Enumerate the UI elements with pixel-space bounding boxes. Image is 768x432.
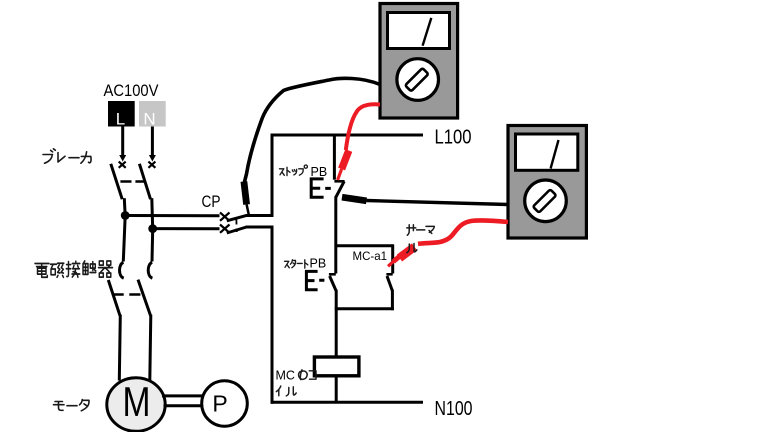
svg-text:L: L	[116, 110, 125, 129]
contactor pole1 upper wire	[123, 216, 125, 262]
terminal N	[139, 101, 166, 129]
multimeter 1 knob	[405, 68, 428, 91]
breaker pole2 blade	[139, 164, 150, 199]
multimeter 2 needle	[551, 140, 559, 169]
stop PB blade	[336, 181, 345, 197]
breaker pole2 terminal x	[148, 162, 155, 168]
N100 line	[271, 401, 424, 404]
contactor pole2 fixed contact hook	[148, 262, 152, 278]
wire junction B to CP pole2	[153, 227, 220, 230]
multimeter 1 body	[380, 4, 458, 119]
svg-text:AC100V: AC100V	[104, 81, 160, 100]
junction dot A	[121, 211, 130, 220]
CP pole1 blade	[227, 215, 247, 221]
multimeter 2 body	[508, 126, 586, 239]
wire start PB to coil	[335, 290, 338, 357]
label thermal (JP)	[407, 225, 435, 253]
MC-a1 branch bottom wire	[335, 307, 394, 310]
MC-a1 blade	[387, 276, 392, 291]
multimeter 2 knob	[533, 189, 556, 212]
motor wire 2	[150, 315, 151, 381]
svg-text:PB: PB	[311, 165, 328, 179]
meter1 black lead	[244, 78, 380, 183]
MC-a1 top tick	[386, 273, 392, 276]
wire CP pole2 out	[246, 226, 274, 229]
MC-a1 branch right drop	[391, 244, 394, 273]
meter1 red probe	[342, 151, 349, 170]
label contactor (JP)	[35, 261, 113, 277]
multimeter 1 needle	[423, 18, 432, 46]
svg-text:L100: L100	[435, 127, 472, 149]
meter2 red probe clip	[400, 247, 415, 258]
coupling line lower	[164, 404, 204, 407]
stop PB E symbol	[311, 179, 331, 197]
wire coil to N100	[335, 376, 338, 403]
MC-a1 bottom drop	[391, 290, 394, 310]
svg-text:MC: MC	[276, 368, 295, 382]
breaker pole1 blade	[111, 164, 122, 199]
left rail upper segment	[271, 134, 274, 218]
label stop PB (JP)	[280, 165, 308, 176]
MC coil	[314, 357, 359, 376]
CP pole2 blade	[227, 227, 247, 233]
meter1 red probe tip	[338, 169, 342, 180]
wire breaker pole1 to junction	[123, 198, 127, 216]
start PB E symbol	[306, 271, 324, 289]
CP pole2 terminal x	[220, 225, 230, 233]
meter2 red lead	[418, 220, 508, 243]
L100 line	[271, 134, 424, 137]
meter2 black probe bar	[342, 197, 367, 201]
CP mechanical link (dashed)	[235, 219, 238, 233]
breaker pole1 terminal x	[119, 162, 126, 168]
multimeter 2 dial	[525, 180, 567, 222]
stop PB top tick	[334, 180, 344, 183]
meter2 red probe jaw	[394, 253, 405, 262]
multimeter 2 display	[516, 134, 578, 170]
left rail lower segment	[271, 227, 274, 404]
wire junction A to CP pole1	[125, 214, 219, 217]
terminal L	[108, 101, 135, 129]
wire N drop	[149, 127, 156, 162]
contactor pole1 fixed contact hook	[120, 262, 124, 278]
junction dot B	[148, 224, 157, 233]
svg-text:PB: PB	[310, 257, 327, 271]
wire CP pole1 out	[246, 214, 274, 217]
start PB blade	[330, 276, 336, 291]
coupling line upper	[162, 394, 203, 397]
meter2 black lead	[367, 201, 509, 205]
label breaker (JP)	[43, 149, 91, 163]
meter1 black probe tip	[247, 205, 249, 215]
start PB top tick	[329, 273, 336, 276]
MC-a1 branch top wire	[335, 244, 393, 247]
wire stop PB to start PB	[334, 197, 337, 274]
label MC no coil line1 kana	[299, 370, 316, 380]
svg-text:N: N	[143, 110, 155, 129]
label start PB (JP)	[285, 260, 308, 268]
motor wire 1	[119, 315, 120, 381]
wire L drop	[119, 127, 126, 162]
meter2 red probe tip	[388, 261, 395, 267]
contactor mechanical link (dashed)	[113, 293, 141, 295]
pump P circle	[202, 381, 248, 427]
svg-text:MC-a1: MC-a1	[353, 249, 388, 263]
control circuit drop wire	[333, 135, 336, 180]
contactor pole1 blade	[108, 280, 120, 316]
svg-text:M: M	[123, 378, 151, 425]
svg-text:N100: N100	[435, 398, 473, 420]
meter1 black probe	[244, 182, 247, 205]
contactor pole2 blade	[138, 280, 151, 316]
svg-text:CP: CP	[202, 193, 221, 211]
motor M circle	[107, 378, 165, 432]
multimeter 1 dial	[397, 59, 439, 101]
wire breaker pole2 to junction	[150, 198, 154, 229]
svg-text:P: P	[212, 391, 227, 417]
label MC no coil line2 kana	[276, 386, 296, 396]
multimeter 1 display	[388, 13, 450, 49]
breaker mechanical link (dashed)	[120, 180, 144, 182]
contactor pole2 upper wire	[151, 229, 155, 262]
CP pole1 terminal x	[220, 213, 230, 221]
meter1 red lead	[346, 104, 380, 150]
label motor (JP)	[54, 400, 90, 411]
